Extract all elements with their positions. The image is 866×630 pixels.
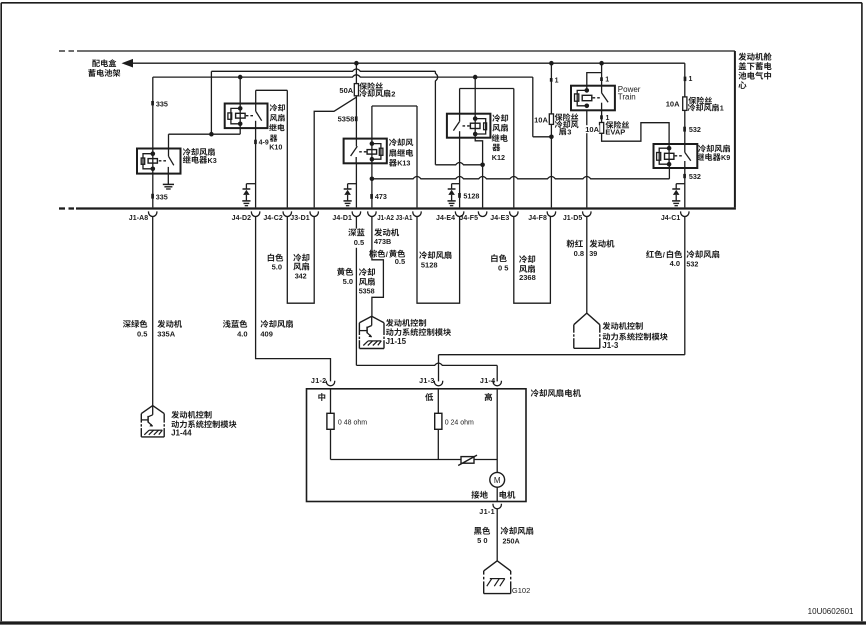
connector J4-F8 at fuse block boundary <box>547 211 555 216</box>
node: Power Train relay tap <box>599 61 604 66</box>
relay K3 coil wire <box>152 149 154 174</box>
svg-text:J3-D1: J3-D1 <box>290 215 310 222</box>
relay K10 box <box>225 104 268 129</box>
svg-text:409: 409 <box>260 330 273 339</box>
wire: circuit 5128 loop J3-A1 to J4-E4 <box>417 216 460 303</box>
relay K9 coil wire <box>668 148 670 164</box>
svg-text:473B: 473B <box>374 237 391 246</box>
svg-text:J4-F5: J4-F5 <box>459 215 478 222</box>
connector J1-3 at fan motor <box>434 381 442 386</box>
tick 532 upper <box>683 127 686 132</box>
svg-text:342: 342 <box>295 271 307 280</box>
label PCM J1-3 <box>602 322 642 330</box>
relay K13 coil pins <box>370 141 375 146</box>
label 低 <box>425 393 433 401</box>
relay K9 coil bracket <box>657 153 661 161</box>
svg-text:K10: K10 <box>269 142 282 151</box>
wire: 低 branch upper <box>437 389 439 414</box>
wire: 中 branch lower <box>330 429 332 459</box>
svg-text:J4-E4: J4-E4 <box>436 215 455 222</box>
relay K13 coil bracket <box>379 148 383 155</box>
relay K12 coil bracket <box>484 123 487 130</box>
wire: 50A fuse branch to J3-D1 <box>314 97 356 207</box>
relay K12 switch <box>459 89 461 122</box>
resistor 0.48 ohm <box>327 413 334 429</box>
label 接地 <box>471 491 487 499</box>
wire: 低 branch lower <box>437 429 439 459</box>
label 冷却风扇 342 <box>293 254 309 262</box>
label 黑色 5.0 <box>474 527 490 535</box>
connector J4-C2 at fuse block boundary <box>283 211 291 216</box>
label 冷却风扇继电器K12 <box>492 114 508 122</box>
label 中 <box>318 393 325 401</box>
relay Power Train coil pins <box>585 88 590 93</box>
wire: fuse3 feed <box>550 63 552 114</box>
wire: bus A right drop (hop over bus B) <box>435 71 437 165</box>
label 发动机 39 <box>589 240 614 248</box>
motor M <box>490 472 505 487</box>
svg-text:J4-C2: J4-C2 <box>263 215 283 222</box>
tick pin1 fuse1 <box>684 77 687 82</box>
tick 335 upper <box>151 101 154 105</box>
wire: bus A drop to K3/K10 node <box>210 71 212 134</box>
tick pin1 fuse3 <box>550 78 553 82</box>
label 保险丝 冷却风扇3 <box>555 113 579 121</box>
wire: circuit 335 upper <box>152 77 154 148</box>
svg-text:J1-15: J1-15 <box>386 337 407 346</box>
connector J4-F5 at fuse block boundary <box>478 211 486 216</box>
relay Power Train coil feed <box>587 73 602 91</box>
svg-text:5128: 5128 <box>421 261 438 270</box>
wire: circuit 2368 loop J4-E3 to J4-F8 <box>514 216 551 303</box>
svg-text:J4-C1: J4-C1 <box>661 215 681 222</box>
relay K12 coil loop <box>475 119 486 134</box>
svg-text:J1-A2 J3-A1: J1-A2 J3-A1 <box>377 215 412 222</box>
label 配电盒 蓄电池架 <box>92 59 116 67</box>
connector J1-A2 at fuse block boundary <box>368 211 376 216</box>
svg-text:/: / <box>663 250 666 259</box>
wire: K13 coil top to J3-A1 <box>371 106 373 139</box>
label 冷却风扇 532 <box>687 250 720 258</box>
wire: feed line corner to fuse1 <box>684 63 686 97</box>
label 深绿色 0.5 <box>123 320 147 328</box>
fuse 50A 冷却风扇2 <box>354 84 358 96</box>
node: 50A fuse tap <box>354 61 359 66</box>
label 10A EVAP <box>584 125 600 133</box>
svg-text:K3: K3 <box>208 156 217 165</box>
svg-text:2: 2 <box>391 89 395 98</box>
svg-text:J4-D1: J4-D1 <box>332 215 352 222</box>
wire: motor ground lead <box>496 487 498 501</box>
wire: bus B (50A fuse feed) <box>153 75 533 77</box>
wire: 中 branch upper <box>330 389 332 414</box>
svg-text:335: 335 <box>156 99 168 108</box>
wire: feed to fuse3 output <box>532 77 534 137</box>
svg-text:0.5: 0.5 <box>395 257 405 266</box>
svg-text:5.0: 5.0 <box>343 277 353 286</box>
battery feed arrow (to 配电盒) <box>122 59 134 68</box>
fuse 10A EVAP <box>600 123 604 134</box>
svg-text:J4-F8: J4-F8 <box>528 215 547 222</box>
svg-text:1: 1 <box>689 76 693 83</box>
wire: circuit 409 J4-D2 to fan J1-2 <box>256 216 331 381</box>
svg-text:J1-3: J1-3 <box>419 376 435 385</box>
svg-text:J1-1: J1-1 <box>479 507 495 516</box>
wire: 50A fuse feed <box>355 63 357 83</box>
label 冷却风扇 409 <box>261 320 293 328</box>
connector J4-D2 at fuse block boundary <box>251 211 259 216</box>
tick 335 lower <box>151 194 154 199</box>
relay K3 coil bracket <box>141 158 145 164</box>
wire: coil control line to K9 (with hops) <box>372 177 670 179</box>
connector J3-D1 at fuse block boundary <box>310 211 318 216</box>
svg-text:J1-D5: J1-D5 <box>563 215 583 222</box>
fuse 10A 冷却风扇3 <box>549 114 553 125</box>
svg-text:3: 3 <box>567 128 571 137</box>
svg-text:J1-44: J1-44 <box>171 428 192 437</box>
node: fuse3 output junction <box>549 135 554 140</box>
connector J4-D1 at fuse block boundary <box>352 211 360 216</box>
label 发动机舱盖下蓄电池电气中心 <box>738 53 771 61</box>
wire: K3 switch / K10 coil link <box>169 133 241 135</box>
relay K13 coil <box>367 150 377 155</box>
relay K3 coil pins <box>151 151 156 156</box>
relay K10 coil pins <box>238 106 243 111</box>
relay K13 dashed link <box>358 151 367 153</box>
label 白色 5.0 <box>268 254 284 262</box>
svg-text:250A: 250A <box>503 537 520 546</box>
svg-text:J1-A8: J1-A8 <box>129 215 149 222</box>
label 电机 <box>500 491 516 499</box>
relay K10 coil <box>236 113 246 118</box>
svg-text:J4-D2: J4-D2 <box>232 215 252 222</box>
connector J1-4 at fan motor <box>493 381 501 386</box>
label 深蓝 0.5 <box>349 229 367 248</box>
relay K10 coil loop <box>231 108 240 123</box>
svg-text:335: 335 <box>156 192 168 201</box>
relay Power Train dashed link <box>593 97 601 99</box>
label 白色 0.5 <box>491 254 507 262</box>
label 保险丝 EVAP <box>606 121 630 129</box>
suppression diode and ground at J4-D1 wire <box>348 183 357 185</box>
node: K12 coil bottom / J4-F5 junction <box>480 163 485 168</box>
connector J4-E3 at fuse block boundary <box>510 211 518 216</box>
svg-text:532: 532 <box>689 125 701 134</box>
svg-text:0.8: 0.8 <box>574 249 584 258</box>
relay Power Train coil <box>582 95 592 100</box>
relay K12 dashed link <box>461 125 470 127</box>
relay K10 coil wire <box>239 77 241 124</box>
relay K3 coil <box>148 159 157 164</box>
node: K3 switch / K10 coil junction <box>209 132 214 137</box>
relay K13 switch <box>355 139 357 147</box>
wire: link to K12 coil bottom (hop over J4-E4 wire) <box>435 163 482 165</box>
cooling fan motor box <box>307 389 527 502</box>
wire: EVAP fuse output to K9 coil <box>602 123 670 149</box>
label 冷却风扇 5128 <box>419 251 451 259</box>
label 冷却风扇继电器K9 <box>698 145 730 153</box>
svg-text:0 48 ohm: 0 48 ohm <box>338 420 367 427</box>
svg-text:EVAP: EVAP <box>605 128 625 137</box>
label 浅蓝色 4.0 <box>223 320 247 328</box>
tick 532 lower <box>683 174 686 178</box>
suppression diode and ground at J4-E4 wire <box>452 183 460 185</box>
ground G102 <box>484 561 511 571</box>
relay K3 dashed link <box>159 160 167 162</box>
wire: K12 coil bottom jog <box>475 134 482 165</box>
svg-text:532: 532 <box>689 172 701 181</box>
resistor 0.24 ohm <box>435 413 442 429</box>
wire: circuit 342 loop J4-C2 to J3-D1 <box>287 216 314 303</box>
svg-text:0 5: 0 5 <box>498 263 508 272</box>
svg-text:/: / <box>386 250 389 259</box>
wire: 50A fuse output to K13 <box>355 96 357 139</box>
svg-text:K9: K9 <box>721 153 730 162</box>
svg-text:0.5: 0.5 <box>137 330 147 339</box>
svg-text:5.0: 5.0 <box>272 263 282 272</box>
node: K13 coil control junction <box>370 177 375 182</box>
relay K13 box <box>344 139 387 164</box>
svg-text:5358: 5358 <box>359 286 375 295</box>
svg-text:1: 1 <box>555 78 559 85</box>
wire: circuit 250A to G102 <box>496 509 498 561</box>
label 冷却风扇 2368 <box>519 255 535 263</box>
wire: 高 branch <box>496 389 498 473</box>
label 发动机 335A <box>157 320 182 328</box>
svg-text:K13: K13 <box>397 159 410 168</box>
wire: Power Train feed <box>601 63 603 93</box>
svg-text:4.0: 4.0 <box>237 330 247 339</box>
wire: circuit 473B J1-A2 to PCM J1-15 <box>372 216 384 316</box>
wire: motor common <box>331 459 498 461</box>
svg-text:G102: G102 <box>512 586 530 595</box>
relay K10 dashed link <box>246 115 255 117</box>
svg-text:335A: 335A <box>157 330 176 339</box>
relay Power Train box <box>571 86 615 111</box>
svg-text:2368: 2368 <box>519 273 536 282</box>
relay K3 coil loop <box>143 154 153 169</box>
relay K9 coil pins <box>667 146 672 151</box>
relay Power Train switch <box>602 93 609 102</box>
label 冷却风扇继电器K13 <box>389 138 413 146</box>
svg-text:5358: 5358 <box>338 115 355 124</box>
label 保险丝 冷却风扇1 <box>688 97 712 105</box>
fuse block enclosure right boundary <box>734 51 736 207</box>
suppression diode and ground at J4-C1 wire <box>676 183 685 185</box>
wire: K12 switch to J4-E3 <box>460 88 514 90</box>
PCM module (发动机控制) J1-3 <box>574 313 600 325</box>
wire: circuit 532 J4-C1 to fan J1-3 <box>684 216 686 354</box>
relay K9 coil loop <box>659 148 669 164</box>
wire: PT coil to J1-D5 <box>586 110 588 207</box>
relay K13 coil wire <box>371 139 373 164</box>
label 冷却风扇 250A <box>501 527 534 535</box>
svg-text:K12: K12 <box>492 153 505 162</box>
node: K12 coil feed <box>473 75 478 80</box>
connector J1-A8 at fuse block boundary <box>149 211 157 216</box>
wire: K10 switch output <box>255 128 257 207</box>
relay K12 coil pins <box>473 116 478 121</box>
node: fuse 冷却风扇3 tap <box>549 61 554 66</box>
relay K10 coil bracket <box>228 113 232 119</box>
relay K9 dashed link <box>675 155 684 157</box>
svg-text:50A: 50A <box>339 86 353 95</box>
connector J1-2 at fan motor <box>326 381 334 386</box>
label 冷却风扇 继电器K3 <box>183 148 215 156</box>
fuse 10A 冷却风扇1 <box>683 97 687 111</box>
thermal limiter <box>461 457 474 464</box>
label 冷却风扇 5358 <box>359 268 375 276</box>
svg-text:10A: 10A <box>534 116 548 125</box>
relay Power Train coil bracket <box>575 94 579 101</box>
label PCM J1-15 <box>386 319 426 327</box>
PCM module (发动机控制) J1-44 <box>141 406 164 414</box>
svg-text:4-9: 4-9 <box>259 140 269 147</box>
svg-text:10A: 10A <box>585 125 599 134</box>
ground below K3 <box>167 174 169 185</box>
relay K12 coil wire <box>474 77 476 134</box>
connector J1-D5 at fuse block boundary <box>583 211 591 216</box>
tick 473 <box>370 194 373 199</box>
relay K13 coil loop <box>372 144 381 160</box>
svg-text:0 24 ohm: 0 24 ohm <box>445 420 474 427</box>
wire: J4-F5 drop <box>482 165 484 208</box>
wire: circuit 39 J1-D5 to PCM J1-3 <box>586 216 588 313</box>
svg-text:J1-4: J1-4 <box>480 376 496 385</box>
label 高 <box>485 393 492 401</box>
relay K9 switch <box>685 152 691 160</box>
suppression diode and ground at J4-D2 wire <box>246 183 255 185</box>
relay Power Train coil loop <box>577 90 587 105</box>
label 冷却风扇继电器K10 <box>270 104 285 111</box>
tick 5358 <box>355 116 358 121</box>
svg-text:5128: 5128 <box>463 191 479 200</box>
relay K12 coil <box>470 123 480 128</box>
tick pin1 PT <box>600 77 603 81</box>
PCM module (发动机控制) J1-15 <box>359 316 384 323</box>
wire: K10 switch to J4-C2 <box>256 89 288 91</box>
relay K10 switch <box>255 90 257 111</box>
fuse block bottom boundary bus <box>59 207 65 209</box>
tick 5128 <box>458 193 461 198</box>
svg-text:10U0602601: 10U0602601 <box>808 607 854 616</box>
svg-text:1: 1 <box>720 104 724 113</box>
wire: battery feed line <box>133 62 685 64</box>
label 发动机 473B <box>374 228 399 236</box>
svg-text:39: 39 <box>589 249 597 258</box>
svg-text:M: M <box>494 476 501 485</box>
svg-text:4.0: 4.0 <box>670 259 680 268</box>
wire: bus A (fuse 3 output) <box>211 69 435 71</box>
wire: fuse3 output to J4-F8 <box>550 124 552 207</box>
svg-text:473: 473 <box>375 192 387 201</box>
relay K9 coil <box>665 153 674 159</box>
wire: PT switch to EVAP fuse <box>601 110 603 122</box>
svg-text:5 0: 5 0 <box>477 536 487 545</box>
label 黄色 5.0 <box>337 268 353 276</box>
wire: K13 coil bottom <box>371 163 373 179</box>
tick 4-9 <box>254 140 257 144</box>
label 棕色/黄色 0.5 <box>369 250 385 258</box>
relay K3 box <box>137 149 181 174</box>
svg-text:J1-3: J1-3 <box>602 341 619 350</box>
wire: K12 switch output to J4-E4 <box>459 138 461 208</box>
node: K10 coil feed <box>238 75 243 80</box>
wire: circuit 335 lower <box>152 174 154 208</box>
label 红色/白色 4.0 <box>646 250 662 258</box>
svg-text:J4-E3: J4-E3 <box>490 215 509 222</box>
svg-text:1: 1 <box>606 115 610 122</box>
label PCM J1-44 <box>171 411 211 419</box>
relay K3 switch <box>168 149 170 157</box>
svg-text:J1-2: J1-2 <box>311 376 327 385</box>
wire: circuit 5358 J4-D1 to fan J1-4 (hop over J1-3 wire) <box>355 216 357 365</box>
svg-text:Train: Train <box>618 93 636 102</box>
wire: circuit 335A to PCM J1-44 <box>152 216 154 405</box>
label 保险丝 冷却风扇2 <box>359 82 383 90</box>
connector J4-E4 at fuse block boundary <box>455 211 463 216</box>
connector J3-A1 at fuse block boundary <box>413 211 421 216</box>
svg-text:532: 532 <box>686 259 698 268</box>
wire: fuse1 output to K9 switch <box>684 110 686 152</box>
tick pin1 EVAP <box>600 115 603 119</box>
svg-text:0.5: 0.5 <box>354 238 364 247</box>
relay K12 box <box>447 114 491 138</box>
wire: 473 to J1-A2 <box>371 179 373 208</box>
wire: K9 switch output to J4-C1 <box>684 168 686 207</box>
relay K9 box <box>654 144 698 168</box>
svg-text:10A: 10A <box>666 100 680 109</box>
wire: K13 switch output to J4-D1 <box>355 163 357 207</box>
fuse block enclosure top boundary <box>59 50 65 52</box>
label 冷却风扇电机 <box>531 389 581 397</box>
svg-text:1: 1 <box>605 76 609 83</box>
label 粉红 0.8 <box>567 240 583 248</box>
connector J4-C1 at fuse block boundary <box>681 211 689 216</box>
connector J1-1 <box>493 504 501 509</box>
